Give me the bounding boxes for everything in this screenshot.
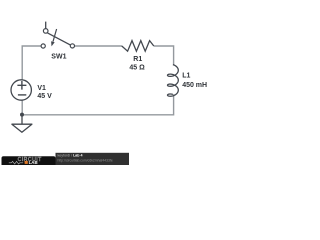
logo LAB — [25, 161, 28, 164]
switch SW1 right terminal circle — [70, 44, 74, 48]
switch SW1 top throw terminal circle — [43, 29, 48, 34]
svg-text:L1: L1 — [182, 73, 190, 80]
V1 minus sign — [18, 94, 26, 96]
svg-text:45 Ω: 45 Ω — [129, 65, 145, 72]
wire V1 bottom to junction — [21, 101, 23, 115]
wire switch to resistor — [75, 45, 123, 47]
svg-text:LAB: LAB — [29, 160, 38, 165]
wire inductor bottom to corner and bottom rail — [22, 94, 173, 115]
svg-text:keyfordi / Lab 4: keyfordi / Lab 4 — [58, 154, 83, 158]
ground stub — [21, 115, 23, 125]
inductor L1 coil — [168, 65, 179, 97]
CircuitLab logo plate — [2, 156, 56, 167]
resistor R1 zigzag — [122, 41, 154, 52]
V1 plus sign — [17, 81, 26, 90]
switch SW1 left pole terminal circle — [41, 44, 45, 48]
wire top-left rail from corner to switch — [22, 46, 41, 80]
watermark text bar — [56, 153, 130, 165]
svg-text:450 mH: 450 mH — [182, 82, 207, 89]
svg-text:R1: R1 — [133, 56, 142, 63]
logo zigzag — [9, 161, 23, 164]
svg-text:V1: V1 — [37, 85, 46, 92]
switch SW1 actuation arrow — [51, 29, 57, 46]
svg-text:http://circuitlab.com/c6k2mhaf: http://circuitlab.com/c6k2mhaf4433fe — [58, 158, 113, 162]
switch SW1 top throw stub — [45, 22, 47, 29]
junction node dot — [20, 113, 24, 117]
svg-text:SW1: SW1 — [51, 54, 66, 61]
svg-text:45 V: 45 V — [37, 93, 52, 100]
wire resistor to top-right corner and down to inductor — [154, 46, 174, 65]
switch SW1 lever — [48, 33, 71, 45]
ground symbol triangle — [12, 124, 32, 132]
voltage source V1 circle — [11, 80, 31, 100]
